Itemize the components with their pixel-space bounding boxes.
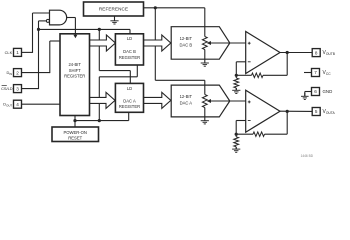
- svg-text:CLK: CLK: [5, 50, 13, 55]
- svg-text:1446 BD: 1446 BD: [301, 154, 314, 158]
- svg-text:DIN: DIN: [6, 70, 12, 76]
- svg-text:DAC B: DAC B: [123, 49, 136, 54]
- svg-text:5: 5: [315, 109, 318, 114]
- svg-text:2: 2: [16, 70, 19, 75]
- svg-text:DAC A: DAC A: [123, 98, 136, 103]
- svg-text:REGISTER: REGISTER: [64, 73, 85, 78]
- svg-text:7: 7: [314, 70, 317, 75]
- svg-text:3: 3: [16, 86, 19, 91]
- svg-text:REGISTER: REGISTER: [119, 55, 140, 60]
- svg-text:GND: GND: [323, 89, 333, 94]
- svg-text:DOUT: DOUT: [3, 102, 12, 108]
- svg-text:REFERENCE: REFERENCE: [99, 7, 128, 12]
- svg-text:CS/LD: CS/LD: [1, 86, 13, 91]
- svg-text:12-BIT: 12-BIT: [180, 94, 193, 99]
- svg-text:24-BIT: 24-BIT: [68, 62, 81, 67]
- svg-text:8: 8: [315, 50, 318, 55]
- svg-text:1: 1: [16, 50, 19, 55]
- svg-text:REGISTER: REGISTER: [119, 104, 140, 109]
- svg-text:DAC A: DAC A: [180, 101, 193, 106]
- svg-text:RESET: RESET: [68, 136, 82, 141]
- svg-text:SHIFT: SHIFT: [69, 68, 81, 73]
- svg-text:VOUTB: VOUTB: [323, 50, 336, 56]
- svg-text:4: 4: [16, 102, 19, 107]
- svg-text:VCC: VCC: [323, 70, 332, 76]
- svg-text:12-BIT: 12-BIT: [180, 36, 193, 41]
- svg-text:VOUTA: VOUTA: [323, 109, 336, 115]
- svg-text:POWER-ON: POWER-ON: [63, 130, 87, 135]
- svg-text:6: 6: [314, 89, 317, 94]
- svg-text:DAC B: DAC B: [179, 43, 192, 48]
- svg-text:LD: LD: [127, 86, 132, 91]
- svg-text:LD: LD: [127, 36, 132, 41]
